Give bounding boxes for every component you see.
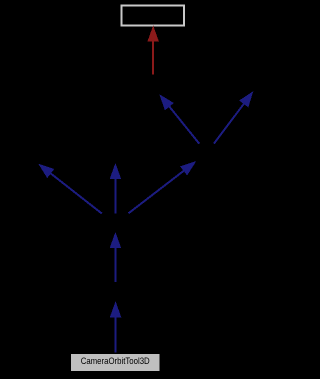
wire: blue edge D->E bbox=[38, 164, 102, 214]
wire: blue edge B->C bbox=[214, 91, 253, 144]
node: top base-class box (empty, light border) bbox=[121, 5, 184, 25]
node: CameraOrbitTool3D (current class) bbox=[71, 354, 160, 372]
wire: blue edge B->A bbox=[159, 94, 199, 144]
wire: blue edge D->F bbox=[110, 163, 122, 214]
wire: blue edge CameraOrbitTool3D->G bbox=[110, 301, 122, 352]
wire: red private-inheritance edge A->top box bbox=[147, 26, 159, 75]
wire: blue edge G->D bbox=[110, 232, 122, 282]
wire: blue edge D->B bbox=[129, 161, 197, 213]
svg-text:CameraOrbitTool3D: CameraOrbitTool3D bbox=[81, 356, 150, 366]
